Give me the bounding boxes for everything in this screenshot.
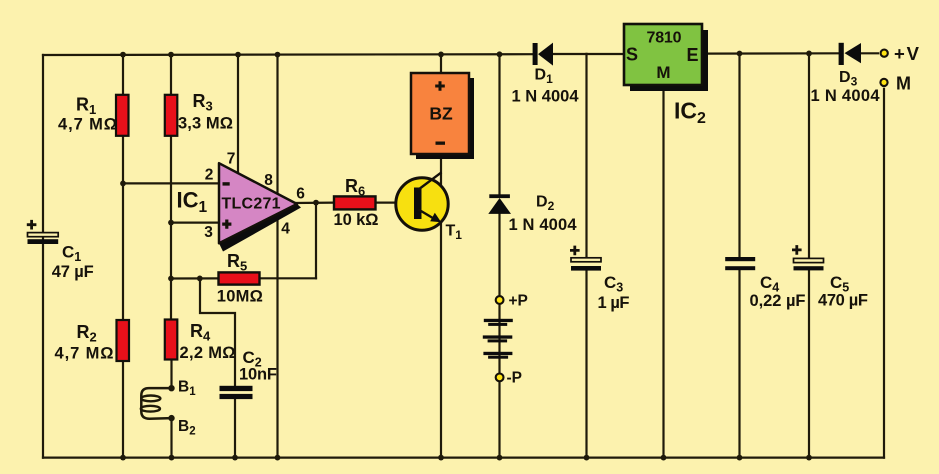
- svg-text:7: 7: [227, 151, 236, 168]
- node feedback R3R4 junction: [168, 276, 174, 282]
- buzzer BZ shadow: [416, 78, 474, 159]
- wire R1 to R2: [122, 136, 124, 320]
- svg-text:4,7 MΩ: 4,7 MΩ: [55, 345, 114, 363]
- resistor R2: [117, 320, 130, 361]
- svg-text:1 N 4004: 1 N 4004: [509, 216, 578, 234]
- svg-text:1 µF: 1 µF: [598, 294, 630, 312]
- wire C3 branch: [585, 54, 587, 258]
- svg-text:3: 3: [204, 224, 213, 241]
- battery long plate 2: [483, 335, 513, 338]
- node battery bottom: [497, 455, 503, 461]
- svg-text:8: 8: [264, 172, 273, 189]
- battery short plate 1: [488, 323, 507, 326]
- wire IC2 M to bottom bus: [662, 85, 664, 458]
- buzzer plus sign: [435, 81, 445, 91]
- wire D3 to +V terminal: [861, 52, 878, 54]
- resistor R5: [219, 272, 260, 284]
- wire R3 branch top: [170, 55, 172, 95]
- svg-text:+P: +P: [509, 293, 528, 310]
- node D2 top: [497, 51, 503, 57]
- svg-text:10 kΩ: 10 kΩ: [334, 211, 379, 229]
- wire D2 to battery and bottom bus: [498, 214, 500, 458]
- node B2 terminal dot: [168, 415, 174, 421]
- svg-text:1 N 4004: 1 N 4004: [512, 88, 580, 106]
- wire pin3 input: [171, 222, 219, 224]
- wire R4 to B1: [170, 359, 172, 388]
- capacitor C3 plus: [570, 246, 580, 256]
- transistor T1 collector line: [419, 172, 442, 189]
- diode D2 cathode bar: [489, 194, 510, 198]
- node B2 bottom: [169, 455, 175, 461]
- svg-text:4,7 MΩ: 4,7 MΩ: [58, 116, 117, 134]
- node IC2 M bottom: [661, 455, 667, 461]
- regulator IC2 7810 box: [624, 24, 702, 85]
- svg-text:47 µF: 47 µF: [52, 263, 94, 281]
- node C2 bottom: [232, 455, 238, 461]
- node pin2 junction: [120, 181, 126, 187]
- capacitor C4 top plate: [725, 257, 755, 261]
- wire pin8 branch: [276, 55, 278, 195]
- op-amp U1 shadow: [219, 204, 301, 252]
- wire top bus to D2: [498, 54, 500, 194]
- wire T1 emitter to bottom bus: [440, 221, 442, 458]
- resistor R1: [116, 95, 129, 136]
- node C4 top: [737, 51, 743, 57]
- wire pin7 branch: [237, 55, 239, 174]
- transistor T1 emitter line: [419, 210, 438, 221]
- diode D1 triangle: [538, 43, 553, 66]
- capacitor C2 top plate: [220, 386, 253, 391]
- resistor R6: [334, 196, 376, 209]
- diode D3 triangle: [845, 43, 862, 63]
- capacitor C1 bottom plate: [28, 239, 59, 244]
- wire op-amp output to R6: [294, 202, 334, 205]
- wire bottom bus: [43, 457, 884, 459]
- wire right bus from M: [883, 89, 885, 458]
- transistor T1 base bar: [414, 188, 422, 220]
- node C2 branch junction: [197, 276, 203, 282]
- svg-text:3,3 MΩ: 3,3 MΩ: [178, 115, 233, 133]
- capacitor C1 top plate: [28, 233, 59, 237]
- svg-text:BZ: BZ: [429, 104, 453, 124]
- node T1 emitter bottom: [438, 455, 444, 461]
- wire IC2 E to D3: [700, 52, 839, 54]
- wire D1 to IC2 S: [553, 53, 626, 55]
- diode D1 cathode bar: [533, 43, 538, 65]
- svg-text:M: M: [656, 63, 670, 82]
- wire R2 to bottom bus: [122, 361, 124, 458]
- buzzer minus sign: [436, 142, 446, 145]
- terminal -P: [496, 374, 504, 382]
- node BZ top: [438, 52, 444, 58]
- wire C2 branch: [200, 278, 235, 385]
- battery short plate 2: [488, 339, 508, 342]
- wire top bus left: [43, 53, 533, 56]
- wire C4 to bottom bus: [738, 270, 740, 457]
- wire output down to feedback: [315, 203, 317, 279]
- transistor T1 emitter arrow: [430, 213, 441, 222]
- capacitor C5 top plate: [794, 258, 824, 262]
- svg-text:7810: 7810: [647, 30, 682, 47]
- node pin3 junction: [168, 220, 174, 226]
- wire top bus to BZ: [440, 54, 442, 73]
- wire C4 branch: [738, 54, 740, 258]
- wire BZ to T1 collector: [440, 154, 442, 186]
- wire pin2 input: [123, 182, 219, 184]
- diode D2 triangle: [488, 198, 511, 214]
- resistor R4: [165, 320, 178, 360]
- node B1 terminal dot: [168, 385, 174, 391]
- op-amp minus sign pin2: [223, 182, 230, 185]
- wire C5 to bottom bus: [808, 270, 810, 457]
- capacitor C2 bottom plate: [220, 394, 253, 399]
- capacitor C5 plus: [792, 245, 802, 255]
- svg-text:1 N 4004: 1 N 4004: [811, 87, 881, 105]
- transistor T1 body: [396, 178, 448, 230]
- battery long plate 1: [484, 319, 513, 322]
- wire pin4 to bottom bus: [276, 214, 278, 458]
- resistor R3: [165, 95, 178, 136]
- node pin8 top: [275, 52, 281, 58]
- op-amp U1 TLC271: [219, 163, 297, 243]
- wire C2 to bottom bus: [234, 399, 236, 458]
- wire R6 to T1 base: [376, 202, 415, 204]
- svg-text:M: M: [896, 74, 911, 94]
- node pin4 bottom: [275, 455, 281, 461]
- wire left bus: [42, 55, 44, 458]
- wire R1 branch top: [122, 55, 124, 95]
- terminal +P: [496, 296, 504, 304]
- wire C3 to bottom bus: [585, 271, 587, 458]
- regulator IC2 shadow: [630, 30, 708, 91]
- svg-text:E: E: [687, 45, 699, 65]
- svg-text:S: S: [626, 45, 638, 65]
- svg-text:2,2 MΩ: 2,2 MΩ: [180, 344, 236, 362]
- diode D3 cathode bar: [839, 43, 844, 65]
- capacitor C1 plus: [27, 220, 37, 230]
- coil loop 1: [141, 396, 160, 402]
- battery long plate 3: [483, 352, 512, 355]
- svg-text:0,22 µF: 0,22 µF: [750, 292, 806, 310]
- capacitor C3 bottom plate: [571, 266, 601, 271]
- svg-text:10nF: 10nF: [239, 366, 277, 384]
- battery short plate 3: [488, 356, 508, 359]
- svg-text:+V: +V: [894, 43, 920, 64]
- node op-amp output junction: [313, 200, 319, 206]
- wire feedback left of R5: [171, 277, 219, 279]
- terminal M: [880, 79, 887, 86]
- wire C5 branch: [808, 53, 810, 258]
- svg-text:470 µF: 470 µF: [818, 292, 868, 310]
- node R1 top: [120, 52, 126, 58]
- node C3 bottom: [584, 455, 590, 461]
- svg-text:-P: -P: [507, 370, 523, 387]
- node C5 top: [806, 51, 812, 57]
- capacitor C4 bottom plate: [725, 266, 755, 270]
- node pin7 top: [235, 52, 241, 58]
- node C5 bottom: [806, 455, 812, 461]
- wire B2 to bottom bus: [170, 418, 172, 458]
- coil B1-B2 pigtail: [141, 388, 171, 419]
- node R3 top: [168, 52, 174, 58]
- terminal +V: [881, 50, 888, 57]
- capacitor C3 top plate: [571, 258, 601, 262]
- svg-text:2: 2: [205, 167, 214, 184]
- node C4 bottom: [737, 455, 743, 461]
- svg-text:6: 6: [296, 186, 305, 203]
- wire R3 to R4: [170, 136, 172, 320]
- svg-text:4: 4: [281, 221, 290, 238]
- node R2 bottom: [120, 455, 126, 461]
- coil loop 2: [141, 406, 160, 412]
- buzzer BZ: [411, 73, 469, 154]
- capacitor C5 bottom plate: [794, 266, 824, 270]
- svg-text:10MΩ: 10MΩ: [217, 288, 263, 306]
- svg-text:TLC271: TLC271: [222, 196, 281, 213]
- op-amp plus sign pin3: [222, 220, 231, 229]
- wire feedback right of R5: [260, 277, 317, 279]
